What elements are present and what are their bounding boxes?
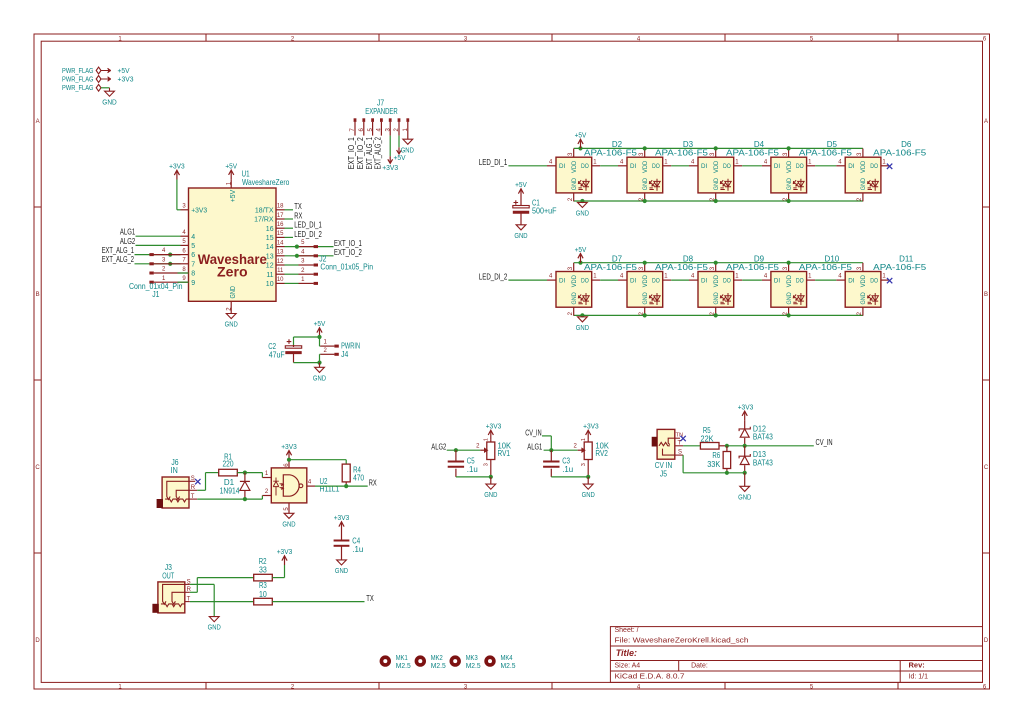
svg-text:EXT_IO_1: EXT_IO_1: [334, 239, 362, 248]
svg-text:GND: GND: [860, 292, 867, 305]
svg-text:47uF: 47uF: [269, 350, 285, 359]
junction: [643, 146, 647, 150]
junction: [743, 444, 747, 448]
svg-text:RX: RX: [369, 479, 377, 488]
svg-text:3: 3: [857, 266, 863, 270]
wire VDD bus: [574, 262, 863, 264]
svg-text:13: 13: [266, 253, 274, 260]
svg-text:EXT_ALG_1: EXT_ALG_1: [102, 246, 135, 255]
svg-text:15: 15: [266, 235, 274, 242]
svg-text:VDD: VDD: [860, 160, 867, 173]
svg-text:GND: GND: [642, 178, 649, 191]
title block: [610, 627, 982, 683]
svg-text:APA-106-F5: APA-106-F5: [799, 149, 853, 158]
svg-text:EXT_ALG_2: EXT_ALG_2: [102, 255, 135, 264]
svg-text:10: 10: [259, 590, 267, 599]
wire: [398, 136, 400, 148]
wire: [285, 218, 294, 220]
LED D5 pin 2 GND: [788, 193, 790, 202]
wire (+3V3 to R4): [289, 459, 346, 461]
connector J4 pin 2: [320, 353, 334, 355]
svg-text:M2.5: M2.5: [466, 661, 481, 670]
svg-text:3: 3: [484, 463, 490, 466]
junction: [243, 471, 247, 475]
svg-text:3: 3: [301, 259, 305, 265]
svg-text:4: 4: [182, 230, 186, 236]
wire LED_DI_1: [508, 165, 547, 167]
connector J1 pin 2: [149, 272, 153, 275]
svg-text:LED_DI_2: LED_DI_2: [479, 273, 508, 282]
connector J7 pin 6: [362, 118, 365, 122]
junction: [787, 146, 791, 150]
power +5V (LED row): [578, 261, 582, 265]
LED D7 pin 4 DI: [547, 279, 556, 281]
U1 pin 1 (top +5V): [230, 179, 232, 188]
mounting hole MK1: [380, 655, 391, 666]
junction: [168, 262, 172, 266]
svg-text:VDD: VDD: [642, 160, 649, 173]
svg-text:DO: DO: [652, 278, 660, 285]
svg-text:J1: J1: [152, 290, 160, 299]
wire VDD bus: [574, 147, 863, 149]
svg-text:2: 2: [568, 311, 574, 315]
svg-text:3: 3: [162, 257, 166, 263]
svg-text:11: 11: [266, 272, 273, 279]
capacitor C5 .1u: [455, 450, 457, 461]
svg-text:Conn_01x05_Pin: Conn_01x05_Pin: [320, 263, 373, 272]
LED D5 pin 4 DI: [762, 165, 771, 167]
svg-text:LED_DI_1: LED_DI_1: [479, 158, 508, 167]
svg-text:11: 11: [277, 268, 284, 274]
junction: [489, 475, 493, 479]
svg-text:R: R: [191, 485, 196, 491]
svg-text:4: 4: [620, 159, 624, 165]
svg-text:+3V3: +3V3: [277, 547, 293, 556]
IC U1 WaveshareZero body: [189, 188, 277, 301]
svg-text:BAT43: BAT43: [753, 458, 773, 467]
svg-text:DI: DI: [559, 278, 565, 285]
J3 pin T: [185, 601, 190, 603]
svg-text:Title:: Title:: [616, 648, 637, 658]
svg-text:B: B: [36, 292, 40, 298]
wire (T to R5): [683, 445, 700, 447]
svg-text:GND: GND: [225, 320, 239, 329]
junction: [317, 335, 321, 339]
LED D4 pin 2 GND: [715, 193, 717, 202]
svg-text:CV_IN: CV_IN: [525, 428, 542, 437]
svg-text:GND: GND: [582, 490, 596, 499]
wire: [671, 279, 689, 281]
svg-text:+3V3: +3V3: [334, 513, 350, 522]
LED D4 pin 1 DO: [734, 165, 743, 167]
LED D11 APA-106-F5 body: [845, 272, 881, 308]
svg-text:VDD: VDD: [571, 160, 578, 173]
svg-text:+3V3: +3V3: [486, 422, 502, 431]
no-connect (J5 TN): [680, 436, 685, 441]
wire (R to R1): [197, 489, 205, 491]
svg-text:VDD: VDD: [713, 275, 720, 288]
capacitor C2 47uF: [287, 339, 292, 344]
wire jog to U2 pin2: [261, 496, 263, 500]
U1 left pins 4-9: [181, 235, 189, 237]
svg-text:4: 4: [691, 274, 695, 280]
power +3V3 (RV1): [490, 431, 492, 440]
J3 pin R: [185, 591, 190, 593]
wire (R to R2): [190, 591, 198, 593]
svg-text:18/TX: 18/TX: [255, 207, 274, 214]
LED D3 pin 2 GND: [644, 193, 646, 202]
connector J7 pin 7: [354, 118, 357, 122]
J6 pin S: [189, 480, 195, 482]
svg-text:3: 3: [581, 463, 587, 466]
wire: [456, 476, 491, 478]
ground (C1): [516, 225, 526, 230]
svg-text:12: 12: [266, 263, 274, 270]
mounting hole MK3: [450, 655, 461, 666]
connector J2 pin 1: [285, 282, 299, 284]
svg-text:Zero: Zero: [217, 265, 248, 280]
svg-text:3: 3: [710, 266, 716, 270]
wire (S to GND rail): [682, 455, 684, 473]
svg-text:1: 1: [664, 159, 668, 165]
svg-text:4: 4: [301, 249, 305, 255]
wire: [345, 482, 347, 486]
svg-text:GND: GND: [484, 490, 498, 499]
junction: [714, 261, 718, 265]
svg-text:PWR_FLAG: PWR_FLAG: [62, 83, 94, 92]
svg-text:DI: DI: [774, 163, 780, 170]
svg-text:14: 14: [266, 244, 274, 251]
resistor R5: [700, 443, 719, 450]
svg-text:GND: GND: [713, 292, 720, 305]
svg-text:+3V3: +3V3: [191, 207, 207, 214]
LED D8 pin 1 DO: [663, 279, 672, 281]
svg-text:DI: DI: [848, 163, 854, 170]
svg-text:APA-106-F5: APA-106-F5: [799, 263, 853, 272]
LED D2 pin 3 VDD: [573, 149, 575, 158]
svg-text:4: 4: [549, 274, 553, 280]
svg-text:1: 1: [808, 274, 812, 280]
diode D12 BAT43: [744, 420, 746, 429]
J5 pin T: [675, 445, 683, 447]
svg-text:GND: GND: [738, 492, 752, 501]
audio jack J3 body: [158, 582, 185, 613]
svg-text:ALG1: ALG1: [527, 443, 542, 452]
svg-text:+5V: +5V: [314, 319, 326, 328]
svg-text:1: 1: [324, 340, 328, 346]
ground (J7): [403, 139, 413, 144]
svg-text:M2.5: M2.5: [396, 661, 411, 670]
svg-text:2: 2: [301, 268, 305, 274]
optocoupler U2 H11L1 body: [271, 468, 307, 503]
U1 pin 3 +3V3: [181, 209, 189, 211]
LED D10 pin 3 VDD: [788, 263, 790, 272]
svg-text:2: 2: [476, 444, 480, 450]
no-connect (DO last): [887, 278, 892, 283]
svg-text:C: C: [984, 465, 989, 471]
LED D11 pin 4 DI: [836, 279, 845, 281]
svg-text:2: 2: [857, 311, 863, 315]
power +3V3 (J7): [389, 156, 391, 162]
svg-text:3: 3: [568, 266, 574, 270]
resistor R2: [254, 574, 273, 581]
junction: [295, 245, 299, 249]
svg-text:3: 3: [639, 266, 645, 270]
svg-text:M2.5: M2.5: [431, 661, 446, 670]
U2 pin 1: [262, 477, 271, 479]
svg-text:APA-106-F5: APA-106-F5: [584, 263, 638, 272]
junction: [787, 313, 791, 317]
LED D7 pin 3 VDD: [573, 263, 575, 272]
svg-text:3: 3: [783, 266, 789, 270]
connector J7 pin 4: [380, 118, 383, 122]
svg-text:S: S: [191, 476, 195, 482]
wire (RX net): [315, 485, 368, 487]
svg-text:1: 1: [664, 274, 668, 280]
svg-text:3: 3: [783, 152, 789, 156]
svg-text:1: 1: [581, 438, 587, 441]
svg-text:16: 16: [266, 226, 274, 233]
svg-text:17/RX: 17/RX: [254, 217, 274, 224]
svg-text:RV1: RV1: [498, 449, 511, 458]
connector J7 pin 1: [406, 118, 409, 122]
LED D4 APA-106-F5 body: [698, 157, 734, 193]
svg-text:GND: GND: [230, 286, 237, 299]
svg-text:2: 2: [265, 489, 269, 495]
svg-text:A: A: [984, 119, 988, 125]
svg-text:DO: DO: [581, 278, 589, 285]
svg-text:+3V3: +3V3: [281, 442, 297, 451]
wire (T to R3): [190, 601, 254, 603]
svg-text:4: 4: [764, 159, 768, 165]
wire: [285, 209, 294, 211]
LED D7 APA-106-F5 body: [556, 272, 592, 308]
capacitor C3 .1u: [550, 450, 552, 461]
svg-text:+5V: +5V: [225, 161, 237, 170]
J5 pin S: [675, 454, 683, 456]
svg-text:GND: GND: [514, 231, 528, 240]
svg-text:DI: DI: [701, 278, 707, 285]
wire jog to U2 pin1: [261, 473, 263, 478]
svg-text:File: WaveshareZeroKrell.kicad: File: WaveshareZeroKrell.kicad_sch: [615, 637, 749, 644]
svg-text:4: 4: [838, 274, 842, 280]
svg-text:1: 1: [808, 159, 812, 165]
RV1 wiper arrow: [480, 449, 484, 451]
wire: [319, 353, 322, 355]
svg-text:GND: GND: [335, 566, 349, 575]
power +5V (U1): [230, 171, 232, 180]
capacitor C4 .1u: [341, 531, 343, 541]
mounting hole MK4: [484, 655, 495, 666]
svg-text:33: 33: [259, 566, 267, 575]
svg-text:4: 4: [162, 248, 166, 254]
RV1 bottom pin: [490, 460, 492, 477]
svg-text:Sheet: /: Sheet: /: [615, 627, 639, 634]
wire: [742, 279, 762, 281]
wire: [294, 336, 320, 338]
U1 right pins 18-10: [276, 209, 285, 211]
wire GND bus: [574, 200, 863, 202]
svg-text:1: 1: [593, 274, 597, 280]
LED D6 pin 1 DO: [881, 165, 890, 167]
svg-text:7: 7: [182, 258, 186, 264]
connector J1 pin 3: [149, 262, 153, 265]
LED D9 APA-106-F5 body: [698, 272, 734, 308]
audio jack J6 body: [162, 477, 189, 508]
svg-text:9: 9: [182, 276, 186, 282]
svg-text:PWR_FLAG: PWR_FLAG: [62, 74, 94, 83]
junction: [287, 458, 291, 462]
power +5V (LED row): [578, 146, 582, 150]
wire ALG1: [136, 235, 181, 237]
wire: [815, 279, 836, 281]
wire: [815, 165, 836, 167]
LED D3 APA-106-F5 body: [627, 157, 663, 193]
svg-text:+3V3: +3V3: [118, 74, 134, 83]
svg-text:5: 5: [191, 243, 195, 250]
svg-text:8: 8: [182, 267, 186, 273]
wire: [101, 87, 110, 89]
J5 pin TN: [675, 437, 680, 439]
J6 pin T: [189, 498, 197, 500]
svg-text:DI: DI: [774, 278, 780, 285]
power +3V3 (U1 pin3): [177, 209, 181, 211]
svg-text:1: 1: [593, 159, 597, 165]
ground (RV1): [490, 477, 492, 484]
wire (S to GND): [190, 583, 214, 585]
LED D10 pin 4 DI: [762, 279, 771, 281]
wire: [389, 136, 391, 157]
junction: [714, 146, 718, 150]
svg-text:3: 3: [857, 152, 863, 156]
svg-text:VDD: VDD: [642, 275, 649, 288]
connector J7 pin 3: [389, 118, 392, 122]
svg-text:GND: GND: [571, 292, 578, 305]
svg-text:2: 2: [574, 444, 578, 450]
junction: [454, 448, 458, 452]
ground (U2): [284, 513, 294, 518]
connector J4 pin 1: [320, 345, 334, 347]
connector J2 pin 3: [285, 264, 299, 266]
svg-text:3: 3: [568, 152, 574, 156]
svg-text:EXT_IO_1: EXT_IO_1: [347, 137, 356, 170]
svg-text:4: 4: [838, 159, 842, 165]
power +5V (C1): [520, 189, 522, 198]
connector J2 pin 2: [285, 273, 299, 275]
svg-text:APA-106-F5: APA-106-F5: [726, 263, 780, 272]
wire: [551, 476, 588, 478]
ground (LED row): [580, 313, 584, 317]
junction: [586, 475, 590, 479]
junction: [643, 199, 647, 203]
svg-text:500+uF: 500+uF: [532, 207, 557, 216]
wire: [237, 472, 262, 474]
LED D6 pin 2 GND: [862, 193, 864, 202]
junction: [787, 261, 791, 265]
svg-text:CV_IN: CV_IN: [816, 438, 833, 447]
U2 pin 6 (top): [288, 460, 290, 468]
power +3V3 (RV2): [587, 431, 589, 440]
junction: [344, 484, 348, 488]
svg-text:9: 9: [191, 280, 195, 287]
connector J7 pin 5: [371, 118, 374, 122]
LED D7 pin 1 DO: [592, 279, 601, 281]
svg-text:APA-106-F5: APA-106-F5: [873, 263, 927, 272]
svg-text:Id: 1/1: Id: 1/1: [909, 673, 929, 680]
svg-text:.1u: .1u: [562, 465, 573, 474]
svg-text:J4: J4: [341, 350, 349, 359]
junction: [295, 254, 299, 258]
svg-text:1: 1: [484, 438, 490, 441]
LED D10 pin 2 GND: [788, 307, 790, 316]
svg-text:Rev:: Rev:: [909, 661, 925, 670]
diode D13 BAT43: [744, 446, 746, 456]
wire: [671, 165, 689, 167]
svg-text:A: A: [36, 119, 40, 125]
LED D3 pin 3 VDD: [644, 149, 646, 158]
svg-text:6: 6: [983, 36, 987, 42]
svg-text:VDD: VDD: [571, 275, 578, 288]
ground (U1): [226, 314, 236, 319]
LED D4 pin 4 DI: [689, 165, 698, 167]
svg-text:18: 18: [277, 204, 284, 210]
svg-text:.1u: .1u: [467, 465, 478, 474]
svg-text:T: T: [191, 494, 195, 500]
connector J2 pin 5: [299, 246, 314, 248]
svg-text:EXT_IO_2: EXT_IO_2: [356, 137, 365, 170]
svg-text:+5V: +5V: [575, 245, 587, 254]
LED D3 pin 4 DI: [618, 165, 627, 167]
wire: [742, 165, 762, 167]
svg-text:TX: TX: [366, 594, 374, 603]
svg-text:T: T: [678, 440, 682, 446]
LED D8 APA-106-F5 body: [627, 272, 663, 308]
svg-text:5: 5: [182, 239, 186, 245]
diode D1 1N914: [244, 473, 246, 482]
svg-text:4: 4: [620, 274, 624, 280]
connector J1 pin 1: [149, 281, 153, 284]
svg-text:ALG2: ALG2: [120, 237, 136, 246]
wire: [272, 577, 284, 579]
svg-text:Date:: Date:: [691, 663, 708, 670]
svg-text:DI: DI: [630, 163, 636, 170]
svg-text:DI: DI: [630, 278, 636, 285]
svg-text:DO: DO: [796, 278, 804, 285]
svg-text:7: 7: [191, 261, 195, 268]
wire: [319, 337, 321, 346]
wire EXT_IO_1: [285, 246, 334, 248]
junction: [787, 199, 791, 203]
wire: [600, 165, 618, 167]
junction: [168, 253, 172, 257]
svg-text:10: 10: [266, 281, 274, 288]
svg-text:IN: IN: [171, 466, 178, 475]
svg-text:D: D: [984, 638, 989, 644]
svg-text:DI: DI: [701, 163, 707, 170]
mounting hole MK2: [415, 655, 426, 666]
LED D11 pin 1 DO: [881, 279, 890, 281]
LED D11 pin 3 VDD: [862, 263, 864, 272]
LED D7 pin 2 GND: [573, 307, 575, 316]
capacitor C1 500+uF: [520, 198, 522, 206]
wire (T row): [197, 498, 262, 500]
svg-text:16: 16: [277, 222, 284, 228]
svg-text:ALG1: ALG1: [120, 228, 136, 237]
wire ALG2: [136, 244, 181, 246]
svg-text:4: 4: [764, 274, 768, 280]
ground (RV2): [587, 477, 589, 484]
LED D10 pin 1 DO: [807, 279, 816, 281]
